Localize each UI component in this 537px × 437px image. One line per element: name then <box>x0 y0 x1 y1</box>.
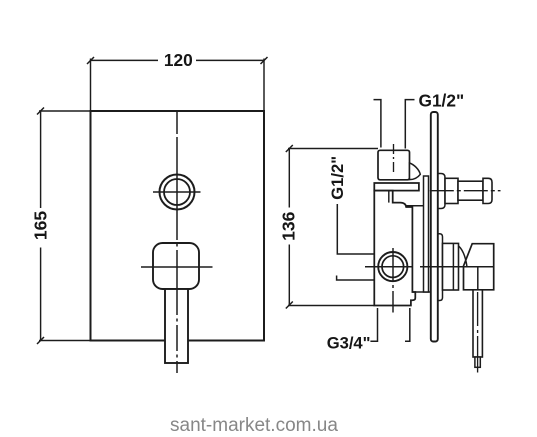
body step ledge to plate <box>412 291 430 293</box>
svg-text:sant-market.com.ua: sant-market.com.ua <box>170 415 338 436</box>
mixer body top band <box>374 183 419 191</box>
handle base inner ring line <box>452 243 454 290</box>
wall plate side view <box>431 112 438 342</box>
leader bottom port 2 <box>405 308 410 341</box>
handle fillet curve <box>458 246 467 266</box>
cartridge outer circle <box>378 252 407 281</box>
svg-text:165: 165 <box>31 211 51 240</box>
dim 165 extension line bottom <box>39 340 91 342</box>
shower port body <box>445 178 458 203</box>
dim 165 extension line top <box>39 110 91 112</box>
dim 120 tick right <box>261 57 268 64</box>
svg-text:G1/2": G1/2" <box>328 156 347 200</box>
leader bottom port 1 <box>370 308 377 341</box>
shower port center line <box>430 190 501 192</box>
body front flange strip <box>424 176 429 292</box>
dim 136 line <box>288 149 290 306</box>
top fitting beak <box>410 163 421 180</box>
shower port shaft <box>458 181 483 200</box>
handle base rounded square <box>153 243 199 289</box>
handle seam vertical <box>477 267 479 290</box>
dim 136 extension line top <box>288 148 378 150</box>
top fitting elbow <box>378 150 410 180</box>
lever tip <box>475 357 480 367</box>
dim 120 line <box>91 59 265 61</box>
body inner neck line <box>388 191 390 203</box>
mixer body outline <box>374 191 415 306</box>
handle center line <box>420 266 494 268</box>
diverter knob inner circle <box>164 179 190 205</box>
svg-text:G3/4": G3/4" <box>327 334 371 353</box>
dim 165 tick top <box>37 108 44 115</box>
handle base crosshair horizontal <box>141 266 213 268</box>
lever front view <box>165 289 188 363</box>
body mid ledge to flange <box>406 205 423 207</box>
cartridge inner circle <box>382 256 404 278</box>
svg-text:G1/2": G1/2" <box>419 91 465 111</box>
svg-text:136: 136 <box>279 211 299 240</box>
svg-text:120: 120 <box>164 50 193 70</box>
leader from rotated label to upper port <box>337 204 390 254</box>
wall plate front view <box>91 111 265 341</box>
dim 120 tick left <box>87 57 94 64</box>
dim 120 extension line right <box>263 59 265 112</box>
cartridge circle vertical center <box>392 248 394 313</box>
shower port end ring <box>483 178 492 203</box>
handle collar strip <box>438 234 443 301</box>
diverter knob outer circle <box>160 175 195 210</box>
lever side view <box>473 290 482 357</box>
leader to lower port with tick <box>337 276 379 281</box>
knob crosshair horizontal <box>153 191 201 193</box>
center line vertical (front view) <box>176 112 178 373</box>
cartridge circle crosshair <box>365 266 413 268</box>
dim 136 extension line bottom <box>288 305 375 307</box>
dim 165 tick bottom <box>37 337 44 344</box>
leader to top fitting (left) <box>374 100 381 148</box>
dim 165 line <box>40 111 42 341</box>
dim 136 tick top <box>286 145 293 152</box>
dim 136 tick bottom <box>286 302 293 309</box>
top fitting center line <box>393 144 395 174</box>
handle body <box>464 244 494 290</box>
lever center line <box>477 292 479 373</box>
shower port collar <box>438 174 445 209</box>
leader to top fitting (right) <box>405 100 414 149</box>
dim 120 extension line left <box>90 59 92 112</box>
handle base rings <box>443 243 459 290</box>
